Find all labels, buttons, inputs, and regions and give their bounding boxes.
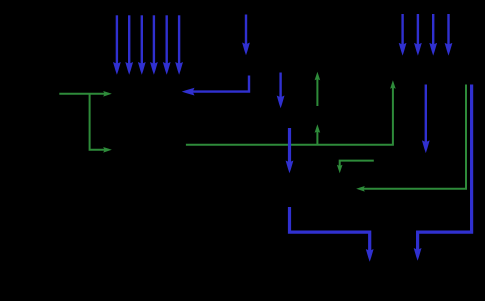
- green wire + arrow E: right side down then long left: [363, 85, 467, 189]
- green arrow F: upper up arrow: [316, 78, 318, 106]
- blue wire + arrow 3: elbow down then left: [191, 76, 249, 92]
- blue arrow 8b: [417, 14, 419, 46]
- green wire + arrow D: elbow left then down: [340, 161, 374, 167]
- blue arrow 2: single top arrow: [245, 15, 247, 47]
- green wire + arrow C: long horizontal then up: [186, 87, 393, 145]
- green arrow A: left label to upper-left target, pointing right: [59, 93, 105, 95]
- blue arrow 5: crosses green long line: [288, 128, 291, 164]
- blue arrow 1f: [178, 15, 180, 65]
- blue arrow 9: [425, 85, 427, 144]
- blue arrow 1d: [153, 15, 155, 65]
- blue arrow 8c: [432, 14, 434, 46]
- blue arrow 8a: [401, 14, 403, 46]
- blue arrow 8d: [447, 14, 449, 46]
- green arrow G: short up arrow from long line: [316, 131, 318, 145]
- blue arrow 1c: [141, 15, 143, 65]
- blue wire + arrow 7: right column down, left, down: [418, 85, 472, 252]
- blue arrow 4: [279, 73, 281, 100]
- blue wire + arrow 6: down, right, down: [290, 207, 370, 253]
- blue arrow 1b: [128, 15, 130, 65]
- green wire + arrow B: branch down then right: [90, 94, 106, 150]
- blue arrow 1a: [116, 15, 118, 65]
- blue arrow 1e: [165, 15, 167, 65]
